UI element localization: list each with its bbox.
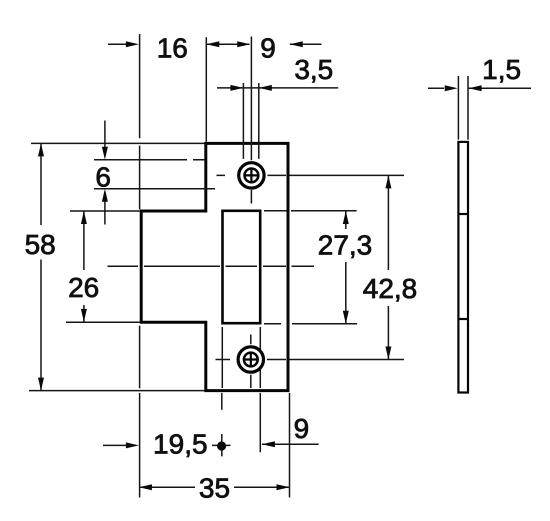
top screw hole outer — [239, 163, 264, 188]
dimension 26 line — [83, 211, 85, 322]
svg-text:42,8: 42,8 — [363, 273, 418, 304]
dimension 6 arrows — [102, 147, 108, 202]
dimension 1,5 arrows — [445, 85, 482, 91]
dimension 1,5 line — [428, 87, 531, 89]
reference line 6 top — [94, 159, 205, 161]
bottom screw hole inner — [244, 353, 258, 367]
svg-text:9: 9 — [260, 33, 276, 64]
bottom hole horizontal centerline — [216, 359, 405, 361]
dimension 42,8 line — [387, 175, 389, 359]
dimension 9 top arrow — [290, 41, 303, 47]
bottom hole center cross — [245, 353, 257, 365]
dimension 6 line — [104, 121, 106, 225]
extension line plate top left — [31, 142, 205, 144]
dimension 27,3 line — [345, 211, 347, 324]
dimension 27,3 arrows — [343, 211, 349, 324]
dimension 9 bottom arrow — [262, 441, 275, 447]
dimension 16 line — [108, 43, 250, 45]
dimension 19,5 line — [103, 444, 231, 446]
bottom screw hole outer — [238, 347, 263, 372]
dimension 58 line — [40, 143, 42, 390]
reference line 6 bottom — [94, 188, 215, 190]
dimension 42,8 arrows — [385, 175, 391, 359]
svg-text:6: 6 — [95, 161, 111, 192]
dimension 19,5 dot — [217, 441, 226, 450]
extension line x139.6 vertical — [139, 34, 141, 498]
plate outline (front view) — [141, 143, 288, 390]
extension line slot bottom right — [264, 323, 357, 325]
side view tick bottom — [458, 318, 469, 320]
dimension 3,5 line — [217, 87, 338, 89]
bottom hole vertical centerline — [250, 335, 252, 389]
dimension 35 arrows — [139, 484, 290, 490]
dimension 9 top line — [290, 43, 322, 45]
dimension 16 arrows — [126, 41, 250, 47]
side view plate — [458, 142, 468, 393]
extension line slot left bottom — [221, 327, 224, 456]
dimension 3,5 arrows — [230, 85, 271, 91]
plate symmetry centerline — [108, 265, 315, 267]
dimension 19,5 arrow — [126, 442, 139, 448]
latch slot — [223, 211, 261, 323]
svg-text:16: 16 — [157, 33, 188, 64]
svg-text:35: 35 — [199, 473, 230, 504]
extension line plate right bottom — [289, 393, 291, 498]
svg-text:26: 26 — [68, 272, 99, 303]
extension line slot top right — [264, 210, 357, 212]
side view tick top — [458, 213, 469, 215]
svg-text:27,3: 27,3 — [318, 230, 373, 261]
top screw hole inner — [245, 169, 259, 183]
top hole center cross — [245, 169, 257, 181]
dimension 58 arrows — [38, 143, 44, 390]
extension line plate left top — [205, 37, 207, 142]
dimension 26 arrows — [81, 211, 87, 322]
extension line slot right bottom — [259, 327, 261, 452]
extension line wing bottom — [66, 321, 140, 323]
svg-text:1,5: 1,5 — [482, 54, 521, 85]
extension lines hole diameter 3,5 — [243, 83, 258, 159]
svg-text:58: 58 — [25, 229, 56, 260]
top hole vertical centerline — [250, 37, 252, 204]
extension line plate bottom left — [29, 390, 205, 392]
svg-text:19,5: 19,5 — [153, 429, 208, 460]
dimension 9 bottom line — [262, 443, 319, 445]
svg-text:9: 9 — [294, 413, 310, 444]
extension line wing top — [70, 210, 140, 212]
top hole horizontal centerline — [217, 174, 405, 176]
svg-text:3,5: 3,5 — [294, 54, 333, 85]
dimension 35 line — [140, 486, 289, 488]
dimension 1,5 extension lines — [458, 76, 468, 140]
